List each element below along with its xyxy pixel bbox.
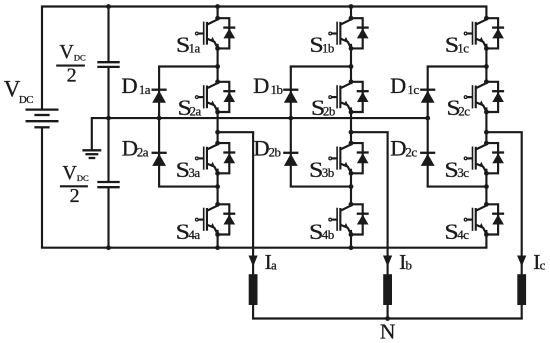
junction top rail / capacitor branch [106,4,111,9]
wire D1b branch [291,65,351,67]
junction D2a branch [215,184,220,189]
junction neutral / D1c-D2c [425,116,430,121]
wire S4c to bottom rail [485,235,487,248]
svg-text:2b: 2b [269,144,281,159]
svg-text:N: N [380,319,396,343]
output current arrow Ia [249,256,258,267]
wire top rail to S1c [485,7,487,19]
wire S3b to S4b [350,173,352,204]
capacitor C1 (VDC/2 upper) [97,62,119,67]
load phase a [249,274,258,305]
svg-text:b: b [406,257,412,272]
wire D1c branch [428,65,487,67]
svg-text:4a: 4a [188,227,200,242]
junction D1a branch [215,64,220,69]
IGBT switch S3c with anti-parallel diode [464,141,504,176]
wire D2b branch [291,186,351,188]
svg-text:D: D [390,73,406,98]
label VDC/2 lower [60,162,89,207]
wire bottom DC- rail [42,247,486,249]
svg-text:VDC: VDC [62,162,89,184]
wire phase a output vertical [252,132,254,318]
clamp diode D2c [420,118,435,187]
junction bottom rail / phase b [349,245,354,250]
junction top rail / phase a [215,4,220,9]
junction D1b branch [349,64,354,69]
svg-text:c: c [540,257,546,272]
wire S1c to S2c [485,48,487,81]
wire D2c branch [428,186,487,188]
svg-text:2a: 2a [137,144,149,159]
svg-text:2: 2 [70,185,80,207]
junction phase c output [484,130,489,135]
svg-text:3b: 3b [322,165,334,180]
wire S2c to S3c (crosses neutral) [485,112,487,143]
wire C1 to C2 through neutral point [107,67,109,182]
svg-text:1a: 1a [189,40,201,55]
junction bottom rail / capacitor branch [106,245,111,250]
junction phase b output [349,130,354,135]
wire phase c output vertical [521,132,523,318]
svg-text:D: D [390,135,406,160]
capacitor C2 (VDC/2 lower) [97,182,119,187]
wire D1a branch [159,65,218,67]
junction neutral point at capacitor midpoint [106,116,111,121]
svg-text:1b: 1b [271,82,283,97]
svg-text:1a: 1a [139,82,151,97]
wire battery positive lead [41,7,43,110]
clamp diode D1a [152,67,167,119]
IGBT switch S2a with anti-parallel diode [195,79,235,114]
wire phase b output horizontal [351,131,388,133]
IGBT switch S3a with anti-parallel diode [195,141,235,176]
wire S3c to S4c [485,173,487,204]
svg-text:DC: DC [19,94,33,106]
load phase b [383,274,392,305]
IGBT switch S1c with anti-parallel diode [464,16,504,51]
wire S1b to S2b [350,48,352,81]
svg-text:a: a [271,257,277,272]
wire S4b to bottom rail [350,235,352,248]
svg-text:1b: 1b [322,40,334,55]
svg-text:2b: 2b [323,103,335,118]
svg-text:4c: 4c [457,227,469,242]
IGBT switch S1b with anti-parallel diode [329,16,369,51]
battery VDC [26,110,59,128]
svg-text:2c: 2c [458,103,470,118]
clamp diode D2b [283,118,298,187]
wire top rail to S1a [217,7,219,19]
wire S2b to S3b (crosses neutral) [350,112,352,143]
ground symbol [82,150,101,158]
svg-text:1c: 1c [407,82,419,97]
svg-text:D: D [253,135,269,160]
svg-text:1c: 1c [457,40,469,55]
label VDC/2 upper [56,41,86,86]
IGBT switch S4b with anti-parallel diode [329,202,369,237]
junction neutral / D1a-D2a [157,116,162,121]
svg-text:2c: 2c [405,144,417,159]
wire phase a output horizontal [218,131,254,133]
IGBT switch S4a with anti-parallel diode [195,202,235,237]
IGBT switch S1a with anti-parallel diode [195,16,235,51]
wire battery negative lead [41,128,43,248]
wire S3a to S4a [217,173,219,204]
load phase c [517,274,526,305]
wire neutral-point rail [109,117,428,119]
IGBT switch S3b with anti-parallel diode [329,141,369,176]
IGBT switch S2c with anti-parallel diode [464,79,504,114]
wire top DC+ rail [42,5,486,7]
junction D1c branch [484,64,489,69]
IGBT switch S2b with anti-parallel diode [329,79,369,114]
svg-text:VDC: VDC [59,41,86,63]
junction top rail / phase b [349,4,354,9]
svg-text:4b: 4b [322,227,334,242]
output current arrow Ic [517,256,526,267]
wire S2a to S3a (crosses neutral) [217,112,219,143]
junction neutral / D1b-D2b [288,116,293,121]
svg-text:3a: 3a [188,165,200,180]
wire D2a branch [159,186,218,188]
clamp diode D2a [152,118,167,187]
wire S1a to S2a [217,48,219,81]
wire phase c output horizontal [486,131,521,133]
svg-text:D: D [121,73,137,98]
svg-text:2a: 2a [190,103,202,118]
svg-text:D: D [122,135,138,160]
IGBT switch S4c with anti-parallel diode [464,202,504,237]
junction phase a output [215,130,220,135]
junction bottom rail / phase a [215,245,220,250]
wire neutral N rail [253,317,522,319]
wire neutral point to ground [92,118,109,150]
junction D2c branch [484,184,489,189]
wire C2 to bottom rail [107,187,109,248]
svg-text:3c: 3c [457,165,469,180]
clamp diode D1c [420,67,435,119]
junction D2b branch [349,184,354,189]
wire S4a to bottom rail [217,235,219,248]
junction N rail / phase b load [385,316,390,321]
svg-text:2: 2 [67,64,77,86]
wire top rail to S1b [350,7,352,19]
wire phase b output vertical [387,132,389,318]
clamp diode D1b [283,67,298,119]
svg-text:D: D [253,73,269,98]
wire top rail to C1 [107,7,109,63]
output current arrow Ib [383,256,392,267]
